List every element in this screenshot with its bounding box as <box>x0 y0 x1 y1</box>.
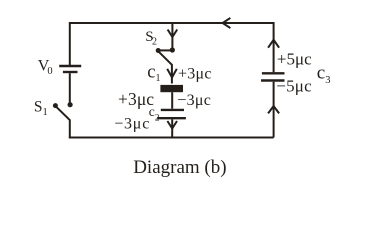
svg-text:c2: c2 <box>149 104 160 124</box>
svg-text:0: 0 <box>47 66 52 77</box>
svg-text:2: 2 <box>152 36 157 47</box>
svg-text:−5μc: −5μc <box>276 76 312 95</box>
svg-text:Diagram (b): Diagram (b) <box>133 157 226 178</box>
svg-text:S1: S1 <box>34 98 48 118</box>
svg-text:−3μc: −3μc <box>177 92 211 109</box>
svg-text:+5μc: +5μc <box>277 50 312 69</box>
svg-text:c1: c1 <box>147 63 160 85</box>
svg-text:+3μc: +3μc <box>178 65 212 82</box>
svg-text:c3: c3 <box>317 63 331 86</box>
svg-text:−3μc: −3μc <box>114 115 150 132</box>
